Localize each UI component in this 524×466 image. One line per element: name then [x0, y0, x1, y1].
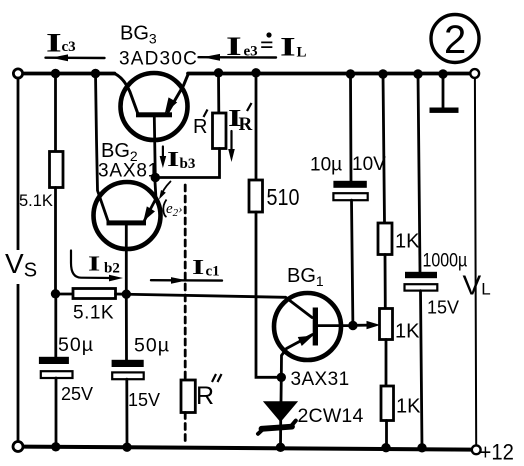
svg-text:L: L	[297, 45, 307, 61]
transistor BG2 emitter lead	[145, 179, 157, 221]
resistor R' bottom wire	[155, 149, 219, 178]
node dot bottom rail x422	[417, 443, 426, 452]
node dot BG3 base junction	[151, 173, 160, 182]
svg-text:R: R	[239, 114, 253, 135]
label I_C3	[46, 29, 76, 57]
transistor BG1 collector lead	[286, 297, 313, 317]
svg-text:I: I	[280, 33, 296, 61]
node dot bottom rail x280	[276, 443, 285, 452]
capacitor 1000u plus plate	[405, 272, 437, 278]
capacitor 50u/25V bottom wire	[55, 378, 58, 447]
wire top rail right segment	[188, 72, 471, 76]
capacitor 50u/25V plus plate	[39, 357, 69, 364]
svg-text:I: I	[46, 29, 62, 57]
svg-text:510: 510	[267, 183, 300, 210]
resistor R'' dashed bottom wire	[184, 413, 187, 446]
svg-text:10V: 10V	[352, 154, 386, 175]
resistor 510 top wire	[255, 74, 258, 181]
resistor R'' body	[181, 380, 195, 413]
resistor 1K middle (pot) body	[380, 309, 393, 340]
label I_C1	[192, 255, 220, 279]
transistor BG2 base lead wire	[125, 225, 128, 293]
capacitor 10u bottom wire	[352, 200, 353, 325]
svg-text:I: I	[226, 33, 242, 61]
svg-text:I: I	[192, 255, 204, 279]
svg-text:1K: 1K	[396, 396, 421, 418]
transistor BG3 base bar	[136, 112, 172, 117]
capacitor 50u/15V bottom wire	[125, 379, 128, 447]
svg-text:25V: 25V	[61, 384, 93, 404]
wire top rail left segment	[18, 72, 115, 76]
annotation arrow I_R'	[230, 131, 232, 155]
svg-text:2: 2	[444, 18, 466, 62]
node dot top rail x443 (stub tap)	[438, 69, 447, 78]
transistor BG2 base bar	[107, 220, 147, 225]
capacitor 50u/15V plus plate	[112, 360, 144, 367]
resistor 5.1K (left vertical) top wire	[54, 74, 57, 152]
node dot bottom rail x127	[122, 443, 131, 452]
node dot bottom rail x55	[51, 442, 60, 451]
svg-text:e3: e3	[244, 44, 258, 60]
terminal bottom-left open circle	[13, 442, 23, 452]
terminal top-left open circle	[13, 69, 22, 78]
capacitor 1000u top wire	[418, 74, 420, 272]
resistor 5.1K (left vertical) body	[50, 152, 64, 188]
svg-text:1K: 1K	[395, 321, 420, 343]
capacitor 50u/25V minus plate	[41, 371, 73, 378]
svg-text:R: R	[196, 382, 214, 410]
svg-text:3AD30C: 3AD30C	[119, 49, 198, 70]
svg-text:b3: b3	[180, 156, 196, 172]
label I_b3	[167, 147, 195, 172]
label I_b2	[88, 252, 120, 277]
resistor 1K bottom body	[381, 386, 394, 421]
resistor 5.1K (left vertical) bottom wire	[54, 188, 57, 294]
wire left rail	[17, 78, 20, 442]
transistor BG1 base lead wire	[318, 324, 353, 327]
svg-text:c1: c1	[206, 264, 220, 280]
capacitor 10u top wire	[349, 74, 352, 181]
capacitor 10u plus plate	[333, 181, 366, 188]
svg-text:50µ: 50µ	[58, 334, 94, 356]
node dot top rail x418 (1000u tap)	[413, 69, 422, 78]
svg-text:1K: 1K	[395, 231, 420, 253]
svg-text:R: R	[193, 116, 207, 138]
svg-text:c3: c3	[62, 39, 76, 55]
capacitor 1000u minus plate	[405, 284, 438, 290]
capacitor 50u/25V top wire	[54, 294, 57, 357]
terminal top-right open circle	[470, 69, 479, 78]
annotation arrow I_e2 squiggle	[162, 182, 171, 194]
transistor BG2 circle	[94, 182, 161, 249]
resistor 5.1K (horizontal) body	[73, 289, 116, 299]
chassis stub wire top right	[442, 74, 445, 109]
transistor BG1 base bar	[313, 308, 318, 346]
transistor BG1 emitter arrow	[299, 337, 311, 345]
zener 2CW14 triangle	[265, 402, 297, 421]
wire bottom rail	[23, 447, 472, 450]
node dot top rail x55	[51, 69, 60, 78]
annotation arrow I_C3	[46, 57, 105, 60]
svg-text:50µ: 50µ	[134, 335, 170, 357]
label Ie3 = IL	[226, 32, 307, 61]
transistor BG3 collector lead	[115, 74, 139, 115]
transistor BG1 emitter lead	[281, 335, 312, 378]
transistor BG3 emitter arrow	[166, 99, 176, 112]
transistor BG3 circle	[121, 73, 188, 140]
svg-text:3AX81: 3AX81	[98, 161, 159, 182]
resistor R' body	[213, 113, 227, 149]
capacitor 50u/15V top wire (part of BG2 base line)	[125, 294, 128, 360]
svg-text:15V: 15V	[128, 390, 160, 410]
svg-text:I: I	[88, 252, 100, 276]
potentiometer wiper arrow into middle 1K	[356, 324, 371, 327]
node dot top rail x350 (10u tap)	[346, 69, 355, 78]
label circled 2	[431, 15, 479, 63]
resistor R' top wire	[217, 74, 220, 114]
node dot zener top junction	[277, 373, 286, 382]
zener 2CW14 cathode bar	[262, 427, 293, 429]
wire between middle and bottom 1K	[385, 340, 388, 387]
transistor BG2 emitter arrow	[145, 208, 154, 220]
capacitor 50u/15V minus plate	[112, 372, 144, 379]
svg-text:5.1K: 5.1K	[73, 303, 114, 324]
transistor BG1 circle	[274, 293, 341, 360]
annotation arrow I_b2	[71, 251, 112, 279]
node dot bottom rail x386	[381, 443, 390, 452]
zener 2CW14 bottom wire	[279, 421, 282, 448]
svg-text:10µ: 10µ	[310, 155, 342, 176]
svg-text:2CW14: 2CW14	[298, 405, 364, 427]
transistor BG3 emitter lead	[168, 74, 189, 113]
wire y295 to BG1 collector	[116, 294, 286, 297]
capacitor 1000u bottom wire	[421, 291, 423, 448]
transistor BG2 collector lead	[96, 74, 109, 222]
node dot BG2 base junction y294	[122, 290, 131, 299]
resistor 5.1K (horizontal) left wire	[56, 293, 74, 296]
svg-text:5.1K: 5.1K	[19, 192, 53, 210]
zener 2CW14 anode wire	[280, 377, 283, 402]
wire between top and middle 1K	[384, 255, 387, 309]
capacitor 10u minus plate	[333, 193, 367, 200]
node dot top rail x95	[91, 69, 100, 78]
annotation arrow I_e3	[199, 56, 277, 59]
resistor R'' dashed top wire	[184, 185, 187, 380]
chassis stub bar	[430, 108, 459, 113]
svg-text:1000µ: 1000µ	[423, 249, 468, 271]
node dot top rail x256 (510 tap)	[251, 68, 260, 77]
resistor 1K top: wire	[383, 74, 385, 224]
resistor 510 body	[249, 180, 263, 212]
svg-text:15V: 15V	[427, 298, 459, 318]
resistor 1K top body	[378, 223, 392, 255]
node dot BG1 base junction	[348, 321, 357, 330]
node dot top rail x383 (1K chain tap)	[378, 69, 387, 78]
wire right rail	[475, 78, 476, 446]
svg-text:I: I	[167, 147, 179, 171]
wire bottom 1K to rail	[385, 421, 388, 448]
svg-text:3AX31: 3AX31	[291, 369, 350, 390]
annotation arrow I_b3	[162, 147, 164, 161]
label V_S	[5, 248, 37, 284]
node dot x55 y294	[51, 289, 60, 298]
resistor 510 bottom wire	[256, 212, 281, 377]
label I_e2	[163, 200, 182, 220]
node dot top rail x218 (R' tap)	[214, 68, 223, 77]
svg-text:+12: +12	[480, 440, 514, 465]
annotation arrow I_C1	[151, 279, 222, 282]
label I_R'	[228, 103, 253, 135]
terminal bottom-right +12 open circle	[472, 445, 481, 454]
transistor BG3 base lead wire	[154, 117, 155, 177]
svg-text:b2: b2	[104, 261, 120, 277]
